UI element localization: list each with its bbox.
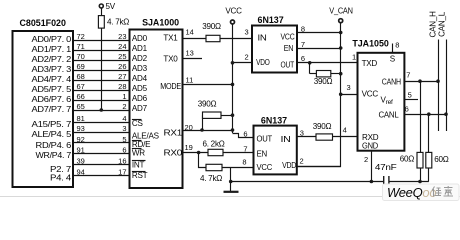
svg-text:OUT: OUT [257, 134, 273, 143]
svg-text:2: 2 [245, 53, 249, 62]
svg-text:14: 14 [186, 28, 194, 37]
svg-text:1: 1 [122, 92, 126, 101]
svg-text:65: 65 [77, 102, 85, 111]
svg-text:A15/P5. 7: A15/P5. 7 [32, 120, 72, 129]
wire R7 to TJA1050 RXD [333, 136, 358, 138]
svg-text:RX1: RX1 [164, 128, 183, 137]
svg-text:MODE: MODE [160, 82, 182, 91]
svg-text:CAN_L: CAN_L [438, 11, 447, 37]
optocoupler U4 6N137 (lower) box [254, 116, 297, 175]
wire U5 pin3 VCC to V_CAN rail [341, 94, 358, 96]
svg-text:94: 94 [77, 167, 85, 176]
jog from VCC rail to opto U4 pin6 [233, 134, 254, 138]
svg-text:AD6/P7. 6: AD6/P7. 6 [32, 95, 72, 104]
svg-text:92: 92 [77, 135, 85, 144]
svg-text:66: 66 [77, 92, 85, 101]
svg-text:VCC: VCC [257, 163, 273, 172]
wire TX0 stub [183, 58, 203, 60]
svg-text:47nF: 47nF [375, 163, 397, 172]
svg-text:CANH: CANH [382, 77, 401, 86]
wire AD6 bus [73, 100, 130, 102]
svg-text:AD6: AD6 [132, 94, 148, 103]
wire U3 pin7 to V_CAN rail [297, 48, 341, 50]
junction R8/bottom rail [418, 180, 422, 184]
svg-text:60Ω: 60Ω [400, 155, 415, 164]
svg-text:71: 71 [77, 42, 85, 51]
svg-text:VDD: VDD [282, 161, 296, 170]
wire R1 to AD7 bus line [101, 28, 103, 110]
svg-text:SJA1000: SJA1000 [142, 18, 179, 28]
svg-text:5: 5 [408, 91, 412, 100]
wire RX0 to R4 [183, 152, 209, 154]
MCU U1 pin labels [32, 35, 72, 183]
optocoupler U3 6N137 (upper) box [252, 15, 297, 73]
overbar INT [132, 160, 146, 162]
svg-text:AD0/P7. 0: AD0/P7. 0 [32, 35, 72, 44]
U4 pin numbers [242, 129, 304, 167]
svg-text:TX1: TX1 [163, 34, 178, 43]
wire RX0 branch down [199, 153, 207, 168]
wire AD7 bus [73, 110, 130, 112]
svg-text:AD7/P7. 7: AD7/P7. 7 [32, 105, 72, 114]
resistor R1 4.7k pull-up [98, 8, 129, 28]
wire U5 pin6 CANL [404, 114, 446, 116]
svg-text:60Ω: 60Ω [434, 155, 449, 164]
svg-text:7: 7 [406, 71, 410, 80]
svg-text:AD3/P7. 3: AD3/P7. 3 [32, 65, 72, 74]
svg-text:RD/P4. 6: RD/P4. 6 [36, 141, 72, 150]
wire U3 pin8 to V_CAN rail [297, 32, 341, 34]
svg-text:68: 68 [77, 72, 85, 81]
svg-text:3: 3 [245, 28, 249, 37]
wire AD0 bus [73, 40, 130, 42]
junction ground rail [229, 180, 233, 184]
U2 pin numbers (left side) [118, 32, 126, 177]
resistor R7 390 ohm (RXD series) [313, 122, 333, 140]
svg-text:AD2/P7. 2: AD2/P7. 2 [32, 55, 72, 64]
svg-text:AD7: AD7 [132, 104, 148, 113]
svg-text:28: 28 [118, 82, 126, 91]
svg-text:27: 27 [118, 72, 126, 81]
wire RST bus [73, 175, 130, 177]
U1 pin numbers [77, 32, 85, 177]
svg-text:1: 1 [352, 53, 356, 62]
U5 pin labels inside [362, 55, 402, 151]
svg-text:RX0: RX0 [164, 149, 183, 158]
svg-text:13: 13 [186, 49, 194, 58]
svg-text:4: 4 [343, 126, 347, 135]
svg-text:6N137: 6N137 [261, 116, 287, 126]
svg-text:25: 25 [118, 52, 126, 61]
svg-text:7: 7 [243, 144, 247, 153]
svg-text:6: 6 [301, 54, 305, 63]
svg-text:4. 7kΩ: 4. 7kΩ [107, 18, 129, 27]
resistor R4 6.2k (RX0 series) [202, 139, 224, 155]
svg-text:OUT: OUT [281, 60, 295, 69]
svg-text:2: 2 [122, 102, 126, 111]
wire MODE to VCC rail [183, 84, 233, 86]
wire RX1 [183, 130, 233, 132]
bottom ground rail (left segment) [231, 181, 384, 183]
svg-text:AD4/P7. 4: AD4/P7. 4 [32, 75, 72, 84]
VCC vertical rail [232, 24, 234, 133]
wire U3 pin6 OUT to TJA1050 TXD [297, 62, 358, 64]
svg-text:7: 7 [301, 40, 305, 49]
watermark [383, 184, 460, 201]
svg-text:P4. 4: P4. 4 [50, 174, 72, 183]
svg-text:AD2: AD2 [132, 54, 148, 63]
svg-text:16: 16 [118, 157, 126, 166]
junction RX1 right [231, 128, 235, 132]
wire CS bus [73, 122, 130, 124]
svg-text:C8051F020: C8051F020 [20, 18, 66, 28]
CAN_L bus line [446, 40, 448, 132]
junction VDO/VCC [231, 61, 235, 65]
svg-text:81: 81 [77, 114, 85, 123]
wire TX1 to R2 [183, 38, 207, 40]
svg-text:GND: GND [362, 142, 378, 151]
svg-text:390Ω: 390Ω [202, 22, 221, 31]
svg-text:26: 26 [118, 62, 126, 71]
svg-text:S: S [390, 55, 396, 64]
svg-text:TX0: TX0 [163, 55, 178, 64]
svg-text:V_CAN: V_CAN [329, 7, 353, 16]
svg-text:8: 8 [395, 41, 399, 50]
svg-text:WR: WR [132, 148, 145, 157]
svg-text:INT: INT [132, 161, 145, 170]
svg-text:CS: CS [132, 119, 144, 128]
svg-text:AD5/P7. 5: AD5/P7. 5 [32, 85, 72, 94]
U2 SJA1000 right pin labels [160, 34, 183, 158]
U2 SJA1000 left pin labels [132, 34, 160, 180]
svg-text:WeeQoo: WeeQoo [387, 185, 436, 200]
svg-text:8: 8 [242, 157, 246, 166]
junction CANL/R9 [427, 112, 431, 116]
wire ALE bus [73, 132, 130, 134]
svg-text:VCC: VCC [225, 7, 242, 16]
resistor R8 60 ohm [400, 81, 423, 181]
svg-text:ALE/P4. 5: ALE/P4. 5 [32, 130, 72, 139]
svg-text:VCC: VCC [362, 90, 379, 99]
U3 pin labels inside [256, 33, 295, 70]
svg-text:17: 17 [118, 167, 126, 176]
svg-text:70: 70 [77, 52, 85, 61]
wire R5 to opto U4 pin8 [222, 167, 254, 169]
svg-text:4. 7kΩ: 4. 7kΩ [200, 174, 222, 183]
CAN controller U2 SJA1000 box [130, 18, 183, 189]
svg-text:RST: RST [132, 171, 148, 180]
svg-text:72: 72 [77, 32, 85, 41]
svg-text:19: 19 [185, 143, 193, 152]
CAN_H bus line [438, 40, 440, 132]
svg-text:AD1/P7. 1: AD1/P7. 1 [32, 45, 72, 54]
U5 pin numbers [343, 41, 412, 164]
junction on AD7 [100, 108, 104, 112]
svg-text:6N137: 6N137 [258, 15, 284, 25]
svg-text:TXD: TXD [362, 59, 378, 68]
svg-text:3: 3 [122, 124, 126, 133]
U3 pin numbers [245, 25, 306, 64]
junction CANL/CAN_L bus [444, 112, 448, 116]
wire WR bus [73, 153, 130, 155]
svg-text:67: 67 [77, 82, 85, 91]
resistor R9 60 ohm [426, 114, 449, 181]
MCU U1 C8051F020 box [13, 18, 74, 187]
overbar WR [132, 148, 142, 150]
svg-text:TJA1050: TJA1050 [352, 38, 389, 48]
junction R6/V_CAN [339, 72, 343, 76]
junction CANH/CAN_H bus [436, 79, 440, 83]
svg-text:6. 2kΩ: 6. 2kΩ [202, 139, 224, 148]
svg-text:AD4: AD4 [132, 74, 148, 83]
wire U4 pin2 VDD to V_CAN rail [297, 166, 341, 168]
svg-text:AD3: AD3 [132, 64, 148, 73]
wire U5 pin2 GND down [371, 151, 373, 182]
faint horizontal scan line [0, 196, 460, 198]
U5 pin5 Vref stub [404, 99, 418, 101]
CAN transceiver U5 TJA1050 box [352, 38, 404, 150]
wire AD5 bus [73, 90, 130, 92]
capacitor C1 47nF [375, 163, 397, 188]
svg-text:11: 11 [186, 76, 194, 85]
wire U4 pin3 to R7 [297, 136, 316, 138]
5V terminal [99, 2, 115, 11]
svg-text:6: 6 [122, 146, 126, 155]
svg-text:5: 5 [122, 135, 126, 144]
overbar CS [132, 119, 142, 121]
bottom ground rail (right segment) [389, 181, 429, 183]
wire U5 pin7 CANH [404, 81, 438, 83]
svg-text:6: 6 [405, 105, 409, 114]
junction GND/bottom rail [370, 180, 374, 184]
svg-text:6: 6 [243, 129, 247, 138]
svg-text:VDO: VDO [256, 58, 270, 67]
svg-text:69: 69 [77, 62, 85, 71]
svg-text:390Ω: 390Ω [198, 100, 217, 109]
svg-text:5V: 5V [106, 2, 116, 11]
junction MODE/VCC [231, 83, 235, 87]
junction V_CAN / TJA VCC [339, 93, 343, 97]
svg-text:EN: EN [257, 150, 268, 159]
junction pin7/V_CAN [339, 46, 343, 50]
svg-text:2: 2 [364, 155, 368, 164]
overbar RST [132, 171, 146, 173]
svg-text:IN: IN [258, 34, 267, 43]
svg-text:ALE/AS: ALE/AS [132, 131, 160, 140]
wire AD1 bus [73, 50, 130, 52]
svg-text:23: 23 [118, 32, 126, 41]
wire INT bus [73, 164, 130, 166]
resistor R6 390 ohm (OUT pull-up) [310, 63, 341, 86]
svg-text:AD1: AD1 [132, 44, 148, 53]
wire AD4 bus [73, 80, 130, 82]
svg-text:VCC: VCC [281, 33, 295, 42]
junction OUT branch [308, 61, 312, 65]
overbar RD [132, 140, 142, 142]
U2 right pin numbers [185, 28, 194, 153]
svg-text:IN: IN [281, 135, 292, 144]
svg-text:WR/P4. 7: WR/P4. 7 [36, 151, 72, 160]
resistor R5 4.7k [200, 164, 222, 183]
resistor R2 390 ohm (TX1 series) [202, 22, 221, 42]
resistor R3 390 ohm (RX1 pull-up) [198, 100, 233, 131]
U4 pin labels inside [257, 134, 297, 172]
wire AD2 bus [73, 60, 130, 62]
ground symbol [224, 182, 239, 192]
junction RX1 left [200, 128, 204, 132]
svg-text:4: 4 [122, 114, 126, 123]
wire down to ground rail [230, 168, 232, 182]
svg-text:39: 39 [77, 157, 85, 166]
VCC terminal [225, 7, 242, 25]
junction RX0 branch [197, 151, 201, 155]
wire RD bus [73, 142, 130, 144]
svg-text:91: 91 [77, 146, 85, 155]
junction R3/VCC rail [231, 113, 235, 117]
svg-text:390Ω: 390Ω [313, 122, 332, 131]
wire R4 to opto U4 pin7 [223, 152, 254, 154]
wire AD3 bus [73, 70, 130, 72]
svg-text:EN: EN [284, 44, 294, 53]
V_CAN terminal [329, 7, 353, 23]
wire R2 to opto U3 pin3 [220, 38, 252, 40]
svg-text:3: 3 [347, 83, 351, 92]
svg-text:93: 93 [77, 124, 85, 133]
svg-text:CANL: CANL [379, 111, 400, 120]
svg-text:CAN_H: CAN_H [429, 11, 438, 38]
svg-text:390Ω: 390Ω [314, 77, 333, 86]
V_CAN vertical rail down to U4 VDD [297, 23, 341, 167]
svg-text:2: 2 [300, 156, 304, 165]
svg-text:24: 24 [118, 42, 126, 51]
wire U3 pin2 (VDO) to VCC rail [233, 62, 253, 64]
junction CANH/R8 [418, 79, 422, 83]
svg-text:AD0: AD0 [132, 34, 148, 43]
svg-text:AD5: AD5 [132, 84, 148, 93]
U5 pin8 S stub [392, 44, 394, 53]
junction pin8/V_CAN [339, 31, 343, 35]
